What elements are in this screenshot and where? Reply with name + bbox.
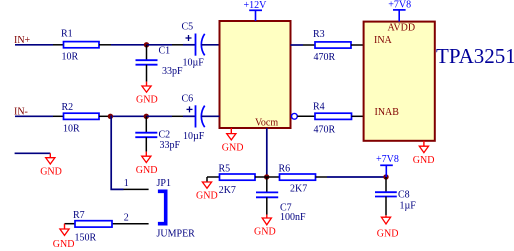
svg-text:1µF: 1µF — [400, 201, 417, 212]
ground GND under C7 — [254, 215, 276, 238]
svg-text:GND: GND — [53, 239, 75, 250]
wire C6 to U1 — [202, 115, 220, 117]
svg-text:33pF: 33pF — [162, 66, 183, 77]
wire Vocm down to node C — [266, 128, 268, 177]
capacitor C2 — [135, 116, 180, 151]
wire IN+ to R1 — [15, 44, 53, 46]
pin name Vocm — [255, 117, 278, 128]
capacitor C1 — [136, 45, 184, 82]
junction node D — [383, 174, 388, 179]
pin 2 lead of JP1 — [112, 223, 149, 225]
wire IN- to R2 — [15, 115, 53, 117]
ground GND under C2 — [136, 152, 158, 176]
jumper JP1 — [157, 178, 196, 240]
svg-text:2: 2 — [124, 212, 129, 223]
pin 1 lead of JP1 — [124, 188, 149, 190]
svg-text:2K7: 2K7 — [290, 184, 307, 195]
svg-text:C1: C1 — [159, 46, 171, 57]
resistor R7 — [65, 210, 113, 244]
wire C5 to U1 — [202, 44, 220, 46]
svg-text:GND: GND — [254, 227, 276, 238]
wire stub to ground left — [15, 152, 51, 154]
part label TPA3251 — [436, 44, 514, 68]
wire R2 to node B — [110, 115, 146, 117]
svg-text:R1: R1 — [61, 29, 73, 40]
net label IN+ — [14, 35, 31, 46]
svg-text:150R: 150R — [75, 233, 97, 244]
svg-text:JUMPER: JUMPER — [157, 229, 196, 240]
pin name AVDD — [388, 23, 416, 34]
svg-text:470R: 470R — [314, 125, 336, 136]
ground GND left stub — [40, 153, 62, 177]
resistor R3 — [303, 29, 364, 63]
svg-text:GND: GND — [413, 155, 435, 166]
pin name INA — [374, 35, 393, 46]
svg-text:470R: 470R — [314, 52, 336, 63]
svg-text:C2: C2 — [159, 130, 171, 141]
ground GND at R7 — [53, 224, 75, 250]
svg-text:AVDD: AVDD — [388, 23, 416, 34]
wire R6 to node D — [327, 176, 386, 178]
svg-text:10R: 10R — [63, 124, 80, 135]
svg-text:GND: GND — [136, 94, 158, 105]
svg-text:JP1: JP1 — [157, 178, 171, 189]
svg-text:Vocm: Vocm — [255, 117, 278, 128]
wire node B to C6 — [146, 115, 172, 117]
svg-text:C6: C6 — [182, 93, 194, 104]
junction node C — [264, 174, 269, 179]
svg-text:R7: R7 — [73, 210, 85, 221]
resistor R1 — [53, 29, 111, 63]
net label IN- — [14, 106, 28, 117]
svg-text:+7V8: +7V8 — [376, 154, 399, 165]
svg-text:TPA3251: TPA3251 — [436, 44, 514, 68]
svg-text:1: 1 — [124, 178, 129, 189]
IC U1 input block — [220, 21, 291, 128]
capacitor C8 — [375, 177, 416, 215]
resistor R4 — [297, 102, 363, 136]
power +12V — [244, 0, 268, 21]
capacitor C6 polarized — [172, 93, 205, 142]
junction node B1 — [108, 114, 113, 119]
svg-text:R2: R2 — [62, 102, 74, 113]
svg-text:R6: R6 — [279, 163, 291, 174]
resistor R5 — [207, 163, 267, 196]
svg-text:33pF: 33pF — [160, 140, 181, 151]
svg-text:10µF: 10µF — [183, 57, 205, 68]
svg-text:100nF: 100nF — [280, 212, 306, 223]
svg-text:R5: R5 — [219, 163, 231, 174]
power +7V8 at node D — [376, 154, 399, 177]
capacitor C7 — [256, 177, 306, 223]
svg-text:GND: GND — [222, 142, 244, 153]
resistor R6 — [267, 163, 327, 194]
svg-text:INA: INA — [374, 35, 393, 46]
IC U2 TPA3251 — [364, 22, 435, 141]
svg-text:R3: R3 — [313, 29, 325, 40]
svg-text:2K7: 2K7 — [219, 185, 236, 196]
wire R1 to node A — [111, 44, 147, 46]
wire node A to C5 — [147, 44, 173, 46]
svg-text:GND: GND — [136, 165, 158, 176]
svg-text:10µF: 10µF — [183, 131, 205, 142]
capacitor C5 polarized — [172, 22, 205, 69]
resistor R2 — [53, 102, 110, 134]
svg-text:+12V: +12V — [244, 0, 268, 11]
ground GND under C8 — [377, 215, 399, 239]
inverting output bubble of U1 — [292, 113, 298, 119]
pin number 2 — [124, 212, 129, 223]
svg-text:GND: GND — [196, 191, 218, 202]
pin number 1 — [124, 178, 129, 189]
svg-text:C5: C5 — [182, 22, 194, 33]
ground stub under U2 — [413, 141, 435, 166]
svg-text:10R: 10R — [62, 52, 79, 63]
svg-text:GND: GND — [377, 229, 399, 240]
ground GND at R5 — [196, 177, 218, 202]
ground stub under U1 — [222, 128, 244, 153]
pin name INAB — [375, 107, 400, 118]
wire node B down to JP1 pin 1 — [110, 116, 123, 189]
svg-text:+7V8: +7V8 — [388, 0, 411, 11]
junction node B2 — [144, 114, 149, 119]
svg-text:R4: R4 — [313, 102, 325, 113]
svg-text:INAB: INAB — [375, 107, 400, 118]
svg-text:GND: GND — [40, 166, 62, 177]
wire U1 INA out to R3 — [291, 44, 304, 46]
ground GND under C1 — [136, 82, 158, 106]
power +7V8 at U2 — [388, 0, 411, 21]
svg-text:C8: C8 — [398, 189, 410, 200]
junction node A — [144, 42, 149, 47]
